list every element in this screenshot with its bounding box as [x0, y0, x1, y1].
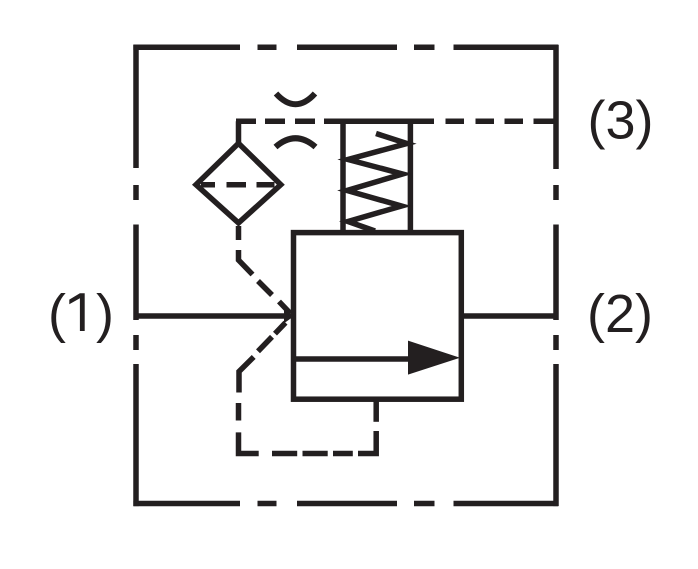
enclosure border bottom (dash-dot) [133, 501, 558, 507]
wire port 1 main line [134, 313, 284, 319]
pilot drain dashed: stub to valve bottom [373, 399, 379, 422]
valve body box [294, 233, 462, 400]
filter diamond [196, 143, 281, 223]
filter diamond inner dashed line [201, 182, 275, 188]
spring chamber right wall [408, 121, 414, 233]
svg-text:): ) [96, 284, 114, 344]
flow arrow line inside valve [295, 356, 413, 362]
svg-text:(3): (3) [588, 91, 654, 151]
flow arrowhead inside valve [408, 341, 460, 375]
spring chamber left wall [340, 121, 346, 233]
spring [347, 134, 407, 232]
svg-text:(2): (2) [587, 284, 653, 344]
pilot drain dashed: bottom run [272, 431, 376, 454]
pilot drain dashed: left vertical lower [239, 403, 259, 454]
enclosure border left (dash-dot) [133, 45, 139, 506]
enclosure border top (dash-dot) [133, 45, 558, 51]
label (1) [48, 284, 114, 344]
label (2) [587, 284, 653, 344]
pilot drain dashed: junction down-left [239, 323, 286, 393]
wire port 2 main line [461, 313, 558, 319]
label (3) [588, 91, 654, 151]
arrowhead into valve at port 1 [284, 309, 294, 323]
svg-text:(: ( [48, 284, 66, 344]
enclosure border right (dash-dot) [553, 45, 559, 506]
pilot drain dashed: diamond to junction [239, 226, 291, 314]
orifice lower arc [276, 138, 316, 147]
pilot line port 3 (dashed) [236, 121, 558, 144]
orifice upper arc [276, 94, 315, 105]
spring chamber top cap [324, 119, 434, 125]
